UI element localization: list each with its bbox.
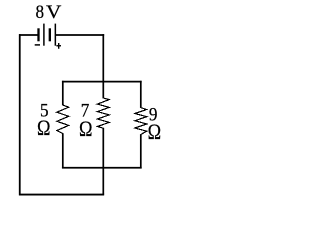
wire: top-left from left corner to battery negative plate (19, 34, 38, 36)
resistor R3 9-ohm: zigzag body (135, 108, 147, 135)
wire: bottom rail of parallel network (62, 167, 142, 169)
resistor R1 5-ohm: zigzag body (57, 105, 69, 134)
wire: left side vertical (19, 34, 21, 195)
wire: top rail of parallel network (62, 81, 142, 83)
battery B1 long thin plate (positive terminal) (55, 24, 57, 46)
svg-text:Ω: Ω (148, 120, 161, 144)
wire: top-right from battery positive plate to top-right corner (56, 34, 104, 36)
resistor R2 7-ohm: bottom lead (102, 128, 104, 168)
resistor R3 9-ohm: bottom lead (140, 134, 142, 168)
resistor R3 9-ohm: top lead (140, 81, 142, 108)
battery plus sign (56, 45, 61, 47)
svg-text:Ω: Ω (79, 117, 92, 141)
resistor R1 5-ohm: bottom lead (62, 133, 64, 168)
battery B1 thick short bar (cell 2 negative) (49, 28, 51, 41)
resistor R1 5-ohm: top lead (62, 81, 64, 106)
wire: drop from bottom rail to bottom wire (102, 168, 104, 195)
battery B1 long thin plate (cell 1 positive) (43, 24, 45, 46)
battery B1 negative plate (left thick short bar) (37, 28, 39, 41)
resistor R2 7-ohm: zigzag body (97, 98, 109, 128)
resistor R2 7-ohm: top lead (102, 82, 104, 99)
svg-text:Ω: Ω (37, 116, 50, 140)
wire: vertical drop from battery wire to parallel network top rail (102, 34, 104, 82)
battery minus sign (35, 44, 40, 46)
svg-text:8: 8 (36, 1, 45, 22)
svg-text:V: V (46, 2, 62, 23)
wire: bottom horizontal (19, 194, 104, 196)
